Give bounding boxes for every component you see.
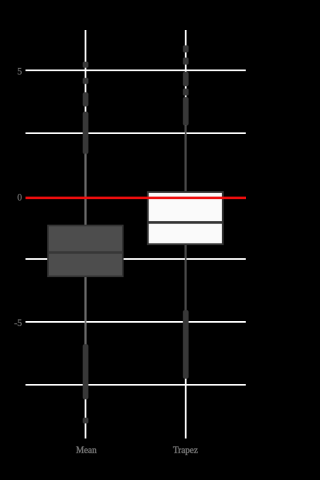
outlier cluster Mean 3 [83, 93, 88, 107]
svg-text:5: 5 [17, 68, 22, 78]
outlier cluster Mean 4 [83, 112, 88, 154]
svg-text:Trapez: Trapez [173, 445, 198, 455]
svg-text:Mean: Mean [76, 445, 97, 455]
outlier Mean 1 [83, 62, 88, 68]
horizontal gridline y=2.5 [26, 132, 246, 134]
box Mean [48, 226, 123, 277]
outlier cluster Trapez 3 [183, 72, 188, 86]
vertical gridline Trapez [185, 30, 187, 439]
outlier cluster Trapez 6 [183, 310, 188, 378]
horizontal gridline y=-7.5 [26, 384, 246, 386]
whisker Trapez upper [185, 125, 187, 192]
whisker Mean lower [85, 276, 87, 345]
vertical gridline Mean [85, 30, 87, 439]
whisker Mean upper [85, 154, 87, 226]
outlier Mean 2 [83, 78, 88, 84]
horizontal gridline y=-2.5 [26, 258, 246, 260]
outlier Trapez 1 [183, 46, 188, 53]
outlier cluster Trapez 5 [183, 97, 188, 125]
svg-text:-5: -5 [14, 319, 22, 329]
svg-text:0: 0 [17, 194, 22, 204]
outlier Trapez 4 [183, 89, 188, 96]
median Trapez [148, 221, 223, 224]
horizontal gridline y=-5 [26, 321, 246, 323]
outlier Mean 6 [83, 418, 88, 423]
outlier Trapez 2 [183, 58, 188, 65]
horizontal gridline y=5 [26, 69, 246, 71]
zero reference line (red) [26, 197, 247, 200]
whisker Trapez lower [185, 244, 187, 311]
outlier cluster Mean 5 [83, 344, 88, 399]
median Mean [48, 251, 123, 254]
box Trapez [148, 192, 223, 244]
